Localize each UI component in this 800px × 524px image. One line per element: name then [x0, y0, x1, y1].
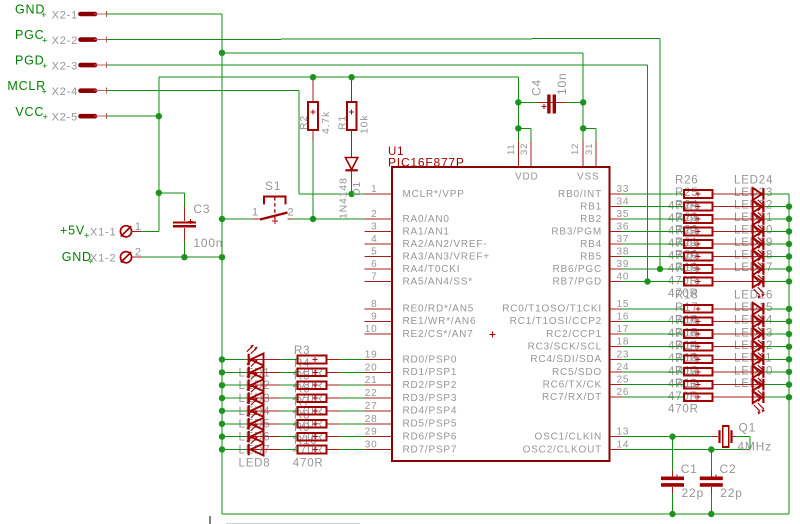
svg-text:35: 35	[617, 209, 630, 220]
svg-text:D1: D1	[351, 181, 363, 196]
svg-text:RB1: RB1	[580, 201, 602, 212]
svg-text:X2-5: X2-5	[52, 112, 78, 124]
svg-text:12: 12	[570, 143, 581, 155]
svg-text:27: 27	[365, 401, 378, 412]
svg-text:4MHz: 4MHz	[737, 440, 772, 454]
svg-text:C1: C1	[681, 462, 698, 476]
svg-text:17: 17	[617, 324, 630, 335]
svg-text:RB0/INT: RB0/INT	[558, 189, 602, 200]
svg-text:7: 7	[371, 272, 377, 283]
svg-text:RC0/T1OSO/T1CKI: RC0/T1OSO/T1CKI	[502, 304, 602, 315]
svg-text:VCC: VCC	[15, 105, 44, 119]
svg-text:14: 14	[617, 440, 630, 451]
svg-text:2: 2	[288, 207, 295, 219]
svg-text:C3: C3	[193, 202, 210, 216]
svg-text:100n: 100n	[193, 236, 223, 250]
svg-text:LED24: LED24	[734, 175, 773, 187]
svg-text:470R: 470R	[293, 457, 324, 469]
svg-text:OSC1/CLKIN: OSC1/CLKIN	[535, 431, 602, 442]
svg-text:RE0/RD*/AN5: RE0/RD*/AN5	[403, 304, 475, 315]
svg-text:22p: 22p	[682, 486, 704, 500]
svg-text:RA2/AN2/VREF-: RA2/AN2/VREF-	[403, 239, 488, 250]
svg-text:RD7/PSP7: RD7/PSP7	[403, 444, 458, 455]
svg-text:RC7/RX/DT: RC7/RX/DT	[542, 392, 602, 403]
svg-text:RA5/AN4/SS*: RA5/AN4/SS*	[403, 276, 474, 287]
svg-text:19: 19	[365, 350, 378, 361]
svg-text:26: 26	[617, 387, 630, 398]
svg-text:37: 37	[617, 234, 630, 245]
svg-text:+: +	[41, 87, 47, 98]
svg-text:PGD: PGD	[15, 54, 45, 68]
svg-text:X2-3: X2-3	[52, 60, 78, 72]
svg-text:RD6/PSP6: RD6/PSP6	[403, 431, 458, 442]
svg-text:8: 8	[371, 299, 377, 310]
svg-text:RD4/PSP4: RD4/PSP4	[403, 406, 458, 417]
svg-text:RD3/PSP3: RD3/PSP3	[403, 393, 458, 404]
svg-text:X1-1: X1-1	[90, 227, 116, 239]
svg-text:RC4/SDI/SDA: RC4/SDI/SDA	[530, 354, 602, 365]
svg-text:RB7/PGD: RB7/PGD	[552, 276, 602, 287]
svg-text:38: 38	[617, 247, 630, 258]
svg-text:25: 25	[617, 375, 630, 386]
svg-text:S1: S1	[265, 179, 281, 193]
svg-text:RA4/T0CKI: RA4/T0CKI	[403, 264, 461, 275]
svg-text:VDD: VDD	[515, 172, 539, 183]
svg-text:+: +	[42, 61, 48, 72]
svg-text:10n: 10n	[555, 73, 569, 95]
svg-text:+: +	[42, 112, 48, 123]
svg-text:32: 32	[519, 143, 530, 155]
svg-text:1: 1	[135, 221, 142, 233]
svg-text:X2-1: X2-1	[52, 9, 78, 21]
svg-text:VSS: VSS	[577, 172, 599, 183]
svg-text:R26: R26	[675, 175, 699, 187]
svg-text:C2: C2	[720, 462, 737, 476]
svg-text:RE1/WR*/AN6: RE1/WR*/AN6	[403, 316, 477, 327]
svg-text:15: 15	[617, 299, 630, 310]
svg-text:X1-2: X1-2	[90, 253, 116, 265]
svg-text:+5V: +5V	[60, 224, 85, 238]
svg-text:X2-2: X2-2	[52, 35, 78, 47]
svg-text:34: 34	[617, 197, 630, 208]
svg-text:30: 30	[365, 440, 378, 451]
svg-text:MCLR: MCLR	[7, 79, 46, 93]
svg-text:21: 21	[365, 375, 378, 386]
svg-text:36: 36	[617, 222, 630, 233]
svg-text:13: 13	[617, 427, 630, 438]
svg-text:RC1/T1OSI/CCP2: RC1/T1OSI/CCP2	[510, 316, 602, 327]
svg-text:RA3/AN3/VREF+: RA3/AN3/VREF+	[403, 251, 490, 262]
svg-text:R2: R2	[298, 115, 310, 130]
svg-text:29: 29	[365, 427, 378, 438]
svg-text:40: 40	[617, 272, 630, 283]
svg-text:4: 4	[371, 234, 377, 245]
svg-text:PIC16F877P: PIC16F877P	[388, 156, 465, 170]
svg-text:33: 33	[617, 184, 630, 195]
svg-text:RB2: RB2	[580, 214, 602, 225]
svg-text:RB6/PGC: RB6/PGC	[552, 264, 602, 275]
svg-text:28: 28	[365, 414, 378, 425]
svg-text:18: 18	[617, 337, 630, 348]
svg-text:3: 3	[371, 222, 377, 233]
svg-text:RC6/TX/CK: RC6/TX/CK	[543, 379, 602, 390]
svg-text:1: 1	[371, 184, 377, 195]
svg-text:RC5/SDO: RC5/SDO	[552, 367, 602, 378]
svg-text:RB5: RB5	[580, 251, 602, 262]
svg-text:+: +	[42, 36, 48, 47]
svg-text:1: 1	[252, 207, 259, 219]
svg-text:2: 2	[371, 209, 377, 220]
svg-text:RB4: RB4	[580, 239, 602, 250]
svg-text:2: 2	[135, 247, 142, 259]
svg-text:RD1/PSP1: RD1/PSP1	[403, 367, 458, 378]
svg-text:470R: 470R	[668, 404, 699, 416]
svg-text:X2-4: X2-4	[52, 86, 78, 98]
svg-text:MCLR*/VPP: MCLR*/VPP	[403, 189, 465, 200]
svg-text:9: 9	[371, 311, 377, 322]
svg-text:LED8: LED8	[239, 457, 271, 469]
svg-text:16: 16	[617, 311, 630, 322]
svg-text:R1: R1	[337, 115, 349, 130]
svg-text:24: 24	[617, 362, 630, 373]
svg-text:31: 31	[584, 143, 595, 155]
svg-text:Q1: Q1	[739, 421, 757, 435]
svg-text:RA1/AN1: RA1/AN1	[403, 226, 450, 237]
svg-text:39: 39	[617, 259, 630, 270]
svg-text:OSC2/CLKOUT: OSC2/CLKOUT	[523, 444, 602, 455]
svg-text:RC2/CCP1: RC2/CCP1	[546, 329, 602, 340]
svg-text:10: 10	[365, 324, 378, 335]
svg-text:PGC: PGC	[15, 28, 45, 42]
svg-text:R18: R18	[675, 289, 699, 301]
svg-text:RD2/PSP2: RD2/PSP2	[403, 380, 458, 391]
svg-text:C4: C4	[530, 79, 544, 96]
svg-text:1N4148: 1N4148	[338, 177, 350, 219]
svg-text:LED16: LED16	[734, 289, 773, 301]
svg-text:20: 20	[365, 362, 378, 373]
svg-text:22p: 22p	[720, 486, 742, 500]
svg-text:10k: 10k	[359, 115, 371, 134]
svg-text:22: 22	[365, 388, 378, 399]
svg-text:6: 6	[371, 259, 377, 270]
svg-text:5: 5	[371, 247, 377, 258]
svg-text:23: 23	[617, 349, 630, 360]
svg-text:RB3/PGM: RB3/PGM	[551, 226, 602, 237]
svg-text:11: 11	[506, 144, 517, 155]
svg-text:+: +	[41, 10, 47, 21]
svg-text:RE2/CS*/AN7: RE2/CS*/AN7	[403, 329, 474, 340]
svg-text:RD0/PSP0: RD0/PSP0	[403, 354, 458, 365]
svg-text:RD5/PSP5: RD5/PSP5	[403, 419, 458, 430]
svg-text:RC3/SCK/SCL: RC3/SCK/SCL	[528, 342, 602, 353]
svg-text:RA0/AN0: RA0/AN0	[403, 214, 450, 225]
svg-text:4.7k: 4.7k	[320, 111, 332, 134]
